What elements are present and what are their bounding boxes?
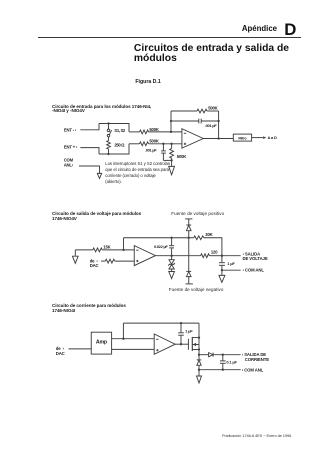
svg-text:120: 120 [211,249,218,254]
supply rail c3 [198,323,200,370]
svg-text:500K: 500K [177,154,186,159]
header word Apendice [200,24,277,33]
transzorb suppressor [168,256,175,272]
junction dot cap 0.1 top [222,354,224,356]
capacitor 1 uF c3 [178,323,184,344]
wire Amp to op-amp top [112,338,155,340]
junction dot common bar [170,159,172,161]
label DAC input c2 [90,259,99,268]
wire feedback top c3 [123,322,199,324]
label SALIDA DE VOLTAJE [243,252,268,262]
wire op-amp to gate [175,343,188,345]
wire inverting node to feedback [123,238,125,250]
wire Amp to op-amp bottom [112,348,155,350]
junction dot bottom of branch [107,153,109,155]
ground arrow c3 [197,370,202,383]
resistor 15K input [75,248,134,252]
resistor DAC input c2 [101,259,134,263]
ground arrow below divider [169,160,175,174]
junction dot inverting node [170,131,172,133]
wire DAC to Amp [69,348,92,350]
svg-text:Filtro: Filtro [238,136,247,140]
junction dot salida takeoff [198,354,200,356]
junction dot top of branch [107,122,109,124]
label SALIDA DE CORRIENTE [242,352,269,362]
circuit 1 title [52,105,151,114]
junction dot source [198,348,200,350]
appendix letter D [284,20,296,40]
svg-text:ENT + ›: ENT + › [64,145,78,150]
svg-text:15K: 15K [103,244,110,249]
junction dot feedback cap [170,237,172,239]
svg-text:DE VOLTAJE: DE VOLTAJE [243,256,268,261]
resistor 30K feedback [124,236,222,256]
wire com branch [222,269,241,271]
circuit 2 title [52,212,141,221]
svg-text:Fuente de voltaje negativo: Fuente de voltaje negativo [169,287,224,292]
junction dot feedback rail [188,237,190,239]
capacitor 1 uF output [219,256,225,271]
svg-text:DAC: DAC [90,263,99,268]
ground arrow below transzorb [169,272,175,279]
wire feedback vertical c3 [122,323,124,339]
junction dot cap branch [162,143,164,145]
resistor 250 ohm [107,141,111,155]
junction dot output node [221,255,223,257]
resistor 500K feedback [171,109,219,113]
diode series output [199,353,241,357]
switch S1, S2 [107,124,111,141]
junction dot gate cap [180,343,182,345]
wire ENT+ lead [80,148,99,154]
wire non-inverting input line with resistor [129,142,182,146]
svg-text:› COM ANL: › COM ANL [243,268,265,273]
supply rail vertical [188,219,190,284]
label DAC input c3 [56,346,65,356]
svg-text:250 Ω: 250 Ω [114,143,125,148]
junction dot output tvs [170,255,172,257]
svg-text:ANL›: ANL› [64,162,74,167]
junction dot com rail c3 [198,369,200,371]
diode rail c3 [197,360,202,365]
svg-text:Amp: Amp [96,339,107,345]
svg-text:ENT - ›: ENT - › [64,128,77,133]
svg-text:DAC: DAC [56,351,65,356]
junction dot com node [221,269,223,271]
wire op-amp output [203,138,233,140]
wire feedback left vertical [170,111,172,132]
page heading [134,44,289,64]
capacitor 0.1 uF [220,355,226,370]
arrow to A a D [252,136,267,139]
wire ENT- lead [80,124,99,130]
svg-text:› COM ANL: › COM ANL [242,367,264,372]
amplifier box Amp [91,332,111,354]
ground arrow COM ANL [97,171,101,179]
negative supply tick [186,283,193,285]
svg-text:0.1 µF: 0.1 µF [226,359,237,364]
svg-text:Fuente de voltaje positivo: Fuente de voltaje positivo [171,211,224,216]
ground arrow DAC input side [72,250,78,263]
svg-text:500K: 500K [208,105,217,110]
svg-text:1 µF: 1 µF [185,328,193,333]
op-amp U1 [182,129,203,149]
note about switches S1 S2 [105,161,170,185]
ground arrow com c2 [219,270,225,282]
wire COM ANL lead [79,166,100,171]
svg-text:0.022 µF: 0.022 µF [154,244,168,249]
svg-text:S1, S2: S1, S2 [114,128,125,133]
svg-text:A a D: A a D [268,135,277,140]
junction dot feedback takeoff [122,338,124,340]
capacitor .001 uF to common [161,144,166,161]
filter box Filtro [233,134,251,141]
junction dot drain [198,336,200,338]
wire feedback right vertical [218,111,220,139]
svg-text:30K: 30K [205,232,212,237]
positive supply tick [185,218,192,220]
circuit 3 title [52,304,126,313]
op-amp U2 [134,246,155,266]
wire common bar [163,159,171,161]
junction dot cap top c3 [180,322,182,324]
label COM ANL terminal [64,158,74,168]
resistor 120 output [156,254,222,258]
op-amp U3 [154,334,175,354]
junction dot output feedback [217,137,219,139]
transistor Q1 [188,337,199,351]
wire voltage output [222,255,241,257]
svg-text:.001 µF: .001 µF [145,147,157,152]
svg-text:500K: 500K [149,139,158,144]
clamp diode to negative supply [186,271,191,276]
wire com c3 [199,369,241,371]
svg-text:.001 µF: .001 µF [205,123,217,128]
enclosure wires around S1,S2 and 250 ohm [99,124,129,155]
junction dot com c3 [222,369,224,371]
resistor 500K to common [170,144,174,161]
capacitor 0.022 uF feedback [169,238,174,256]
figure caption [135,79,160,85]
junction dot cap feedback right [217,120,219,122]
junction dot res branch [170,143,172,145]
wire inverting input line with resistor [129,130,182,134]
header rule [38,36,301,39]
footer publication [222,433,291,438]
junction dot inverting node U2 [122,249,124,251]
clamp diode to positive supply [186,225,191,231]
svg-text:500K: 500K [149,127,158,132]
svg-text:CORRIENTE: CORRIENTE [245,357,269,362]
junction dot cap feedback left [170,120,172,122]
svg-text:1 µF: 1 µF [227,261,235,266]
capacitor .001 uF feedback [171,119,219,124]
